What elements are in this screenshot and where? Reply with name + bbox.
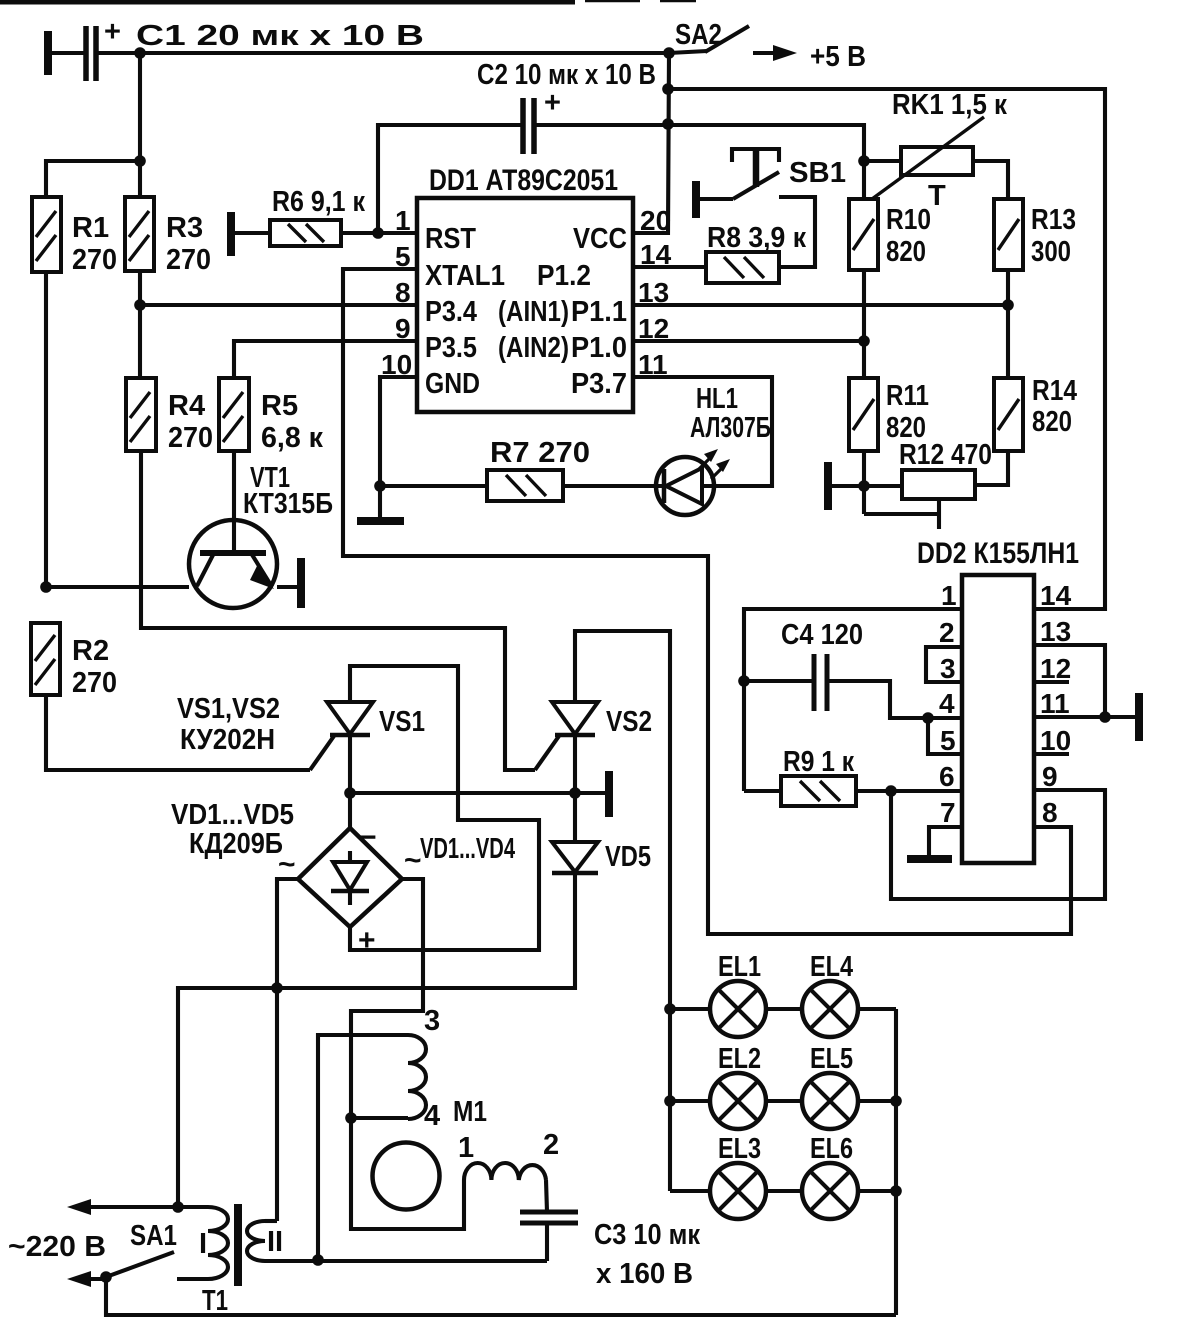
svg-text:P1.0: P1.0 xyxy=(571,332,627,364)
resistor R5 xyxy=(219,378,249,451)
svg-text:R1: R1 xyxy=(72,212,109,244)
lamp EL2 xyxy=(710,1073,766,1129)
node C4 left xyxy=(738,675,750,687)
svg-text:VD1...VD4: VD1...VD4 xyxy=(420,833,515,865)
node P3.4 xyxy=(134,299,146,311)
svg-text:GND: GND xyxy=(425,368,480,400)
svg-text:EL2: EL2 xyxy=(718,1043,761,1075)
svg-text:VS1: VS1 xyxy=(379,706,425,738)
wire VCC column xyxy=(633,53,669,233)
svg-text:270: 270 xyxy=(72,667,117,699)
arrow mains top xyxy=(67,1199,91,1215)
wire R10 bottom xyxy=(862,270,866,378)
capacitor C2 xyxy=(523,98,534,154)
node VS2 cathode xyxy=(569,787,581,799)
svg-text:RST: RST xyxy=(425,223,476,255)
ground (DD2 pin7) xyxy=(907,855,952,863)
svg-text:VCC: VCC xyxy=(573,223,627,255)
wire R6 to RST xyxy=(341,231,417,235)
svg-text:+5 В: +5 В xyxy=(810,41,866,73)
wire P3.4 to DD1 pin8 xyxy=(140,303,417,307)
svg-text:~220 В: ~220 В xyxy=(8,1231,106,1263)
wire pin1 column xyxy=(744,609,962,791)
wire VS2 anode to lamp rail xyxy=(575,631,670,1191)
svg-text:VD5: VD5 xyxy=(605,841,651,873)
node right rail row3 xyxy=(890,1185,902,1197)
wire R4 bottom to VS2 gate xyxy=(141,451,535,770)
wire pin11 to ground xyxy=(1034,715,1135,719)
svg-text:R10: R10 xyxy=(886,204,931,236)
svg-text:EL4: EL4 xyxy=(810,951,853,983)
svg-text:II: II xyxy=(267,1226,283,1258)
bridge VD1...VD4 xyxy=(298,828,402,927)
svg-text:P1.1: P1.1 xyxy=(571,296,627,328)
wire C3 bottom xyxy=(545,1223,549,1261)
svg-text:11: 11 xyxy=(1040,688,1070,719)
svg-text:R6 9,1 к: R6 9,1 к xyxy=(272,186,365,218)
svg-text:7: 7 xyxy=(940,797,956,828)
wire winding2 to C3 xyxy=(546,1180,547,1212)
wire R14 bottom to R12 xyxy=(975,451,1008,485)
svg-text:5: 5 xyxy=(940,725,956,756)
wire +5V rail to DD2 pin14 xyxy=(668,89,1105,609)
resistor R4 xyxy=(126,378,156,451)
capacitor C1 xyxy=(86,26,96,81)
node ac/VD5 rail xyxy=(271,982,283,994)
wire pin5 loop xyxy=(928,718,962,754)
svg-text:2: 2 xyxy=(543,1129,559,1161)
capacitor C4 xyxy=(814,654,827,711)
IC DD2 K155LN1 xyxy=(962,575,1034,863)
T1 core xyxy=(234,1204,242,1286)
node R11/R12/ground xyxy=(858,480,870,492)
svg-text:6,8 к: 6,8 к xyxy=(261,422,323,454)
svg-text:I: I xyxy=(199,1228,207,1260)
node right rail row2 xyxy=(890,1095,902,1107)
wire R2 bottom to VS1 gate xyxy=(46,695,310,770)
wire primary top xyxy=(74,1205,208,1209)
svg-text:(AIN1): (AIN1) xyxy=(498,296,569,328)
wire R9 to pin6 xyxy=(856,789,962,793)
wire bridge right ac to motor xyxy=(351,879,464,1229)
IC DD1 AT89C2051 xyxy=(417,198,633,412)
svg-text:9: 9 xyxy=(1042,761,1058,792)
svg-text:−: − xyxy=(359,821,377,854)
wire right lamp rail xyxy=(894,1009,898,1315)
resistor R2 xyxy=(31,623,60,695)
svg-text:8: 8 xyxy=(1042,797,1058,828)
switch SA2 xyxy=(663,47,675,59)
svg-text:2: 2 xyxy=(939,617,955,648)
pin 10 stub xyxy=(1034,752,1069,756)
wire C4 left xyxy=(744,679,814,683)
wire C1 to SA2 xyxy=(96,51,669,55)
svg-text:R12 470: R12 470 xyxy=(899,439,992,471)
wire to R1 xyxy=(46,161,140,197)
svg-text:HL1: HL1 xyxy=(696,383,738,415)
switch SA1 xyxy=(100,1271,112,1283)
svg-text:R4: R4 xyxy=(168,390,205,422)
arrow mains bottom xyxy=(67,1271,91,1287)
svg-text:12: 12 xyxy=(1040,653,1071,684)
svg-text:R7 270: R7 270 xyxy=(490,437,590,469)
svg-text:EL3: EL3 xyxy=(718,1133,761,1165)
svg-text:8: 8 xyxy=(395,277,411,308)
svg-text:R9 1 к: R9 1 к xyxy=(783,746,854,778)
wire RK1 to R13 xyxy=(973,161,1008,199)
lamp EL3 xyxy=(710,1163,766,1219)
wire R1 bottom to VT1 collector row xyxy=(44,272,48,587)
node left rail row1 xyxy=(664,1003,676,1015)
svg-text:P3.7: P3.7 xyxy=(571,368,627,400)
wire R11 bottom xyxy=(862,451,866,514)
node winding3/secondary xyxy=(312,1254,324,1266)
wire SA1 to bottom rail xyxy=(106,1277,896,1315)
wire lamp row2 xyxy=(670,1099,896,1103)
wire XTAL1 to DD2 pin8 xyxy=(343,269,1071,934)
svg-text:13: 13 xyxy=(1040,616,1071,647)
svg-text:14: 14 xyxy=(1040,580,1072,611)
wire HL1 to P3.7 xyxy=(633,377,772,486)
svg-text:DD2 К155ЛН1: DD2 К155ЛН1 xyxy=(917,537,1079,570)
resistor R8 xyxy=(706,252,779,283)
svg-text:SA2: SA2 xyxy=(675,19,722,51)
svg-text:~: ~ xyxy=(278,848,296,881)
wire node to RK1 xyxy=(864,159,901,163)
transformer T1 primary I xyxy=(208,1207,228,1279)
wire C2 left plate to RST xyxy=(378,125,523,233)
wire VS1 anode to bridge plus xyxy=(350,666,539,950)
svg-text:R11: R11 xyxy=(886,380,929,412)
svg-text:270: 270 xyxy=(168,422,213,454)
svg-text:270: 270 xyxy=(72,244,117,276)
svg-text:R14: R14 xyxy=(1032,375,1077,407)
ground (R11) xyxy=(824,462,832,510)
lamp EL1 xyxy=(710,981,766,1037)
svg-text:VS2: VS2 xyxy=(606,706,652,738)
svg-text:С3 10 мк: С3 10 мк xyxy=(594,1219,700,1251)
wire C2 right plate xyxy=(534,123,668,127)
resistor R6 xyxy=(270,220,341,246)
wire SB1 to R8 xyxy=(779,197,815,267)
arrow +5V xyxy=(753,51,783,55)
node left rail row2 xyxy=(664,1095,676,1107)
wire C4 right to pin4 xyxy=(827,681,962,718)
node pin4/5 xyxy=(922,712,934,724)
node collector/R2 xyxy=(40,581,52,593)
resistor R1 xyxy=(32,197,61,272)
svg-text:300: 300 xyxy=(1031,236,1071,268)
svg-text:P3.5: P3.5 xyxy=(425,332,477,364)
node R1/R3 split xyxy=(134,155,146,167)
svg-text:VD1...VD5: VD1...VD5 xyxy=(171,799,294,831)
svg-text:EL1: EL1 xyxy=(718,951,761,983)
svg-text:С4 120: С4 120 xyxy=(781,619,863,651)
wire VT1 emitter to ground xyxy=(277,585,297,589)
svg-text:х 160 В: х 160 В xyxy=(596,1258,693,1290)
svg-text:+: + xyxy=(544,87,561,119)
wire GND to R7 xyxy=(380,484,487,488)
winding 1-2 xyxy=(464,1163,546,1180)
svg-text:С2 10 мк х 10 В: С2 10 мк х 10 В xyxy=(477,59,656,91)
svg-text:SA1: SA1 xyxy=(130,1220,177,1252)
svg-text:3: 3 xyxy=(424,1005,440,1037)
ground (VT1 emitter) xyxy=(297,558,305,608)
svg-text:270: 270 xyxy=(166,244,211,276)
wire P1.0 xyxy=(633,339,864,343)
svg-text:10: 10 xyxy=(1040,725,1071,756)
svg-text:XTAL1: XTAL1 xyxy=(425,260,505,292)
wire lamp row1 xyxy=(670,1007,896,1011)
resistor R3 xyxy=(125,197,154,271)
wire bridge left ac xyxy=(277,879,298,1221)
ground (DD1 GND) xyxy=(378,486,382,518)
svg-text:R3: R3 xyxy=(166,212,203,244)
wire winding3 top xyxy=(318,1035,408,1260)
ground (R6 left) xyxy=(227,212,235,256)
resistor R10 xyxy=(849,199,878,270)
svg-text:(AIN2): (AIN2) xyxy=(498,332,569,364)
node top rail to DD2 xyxy=(662,83,674,95)
transistor VT1 xyxy=(189,520,277,608)
node GND/R7 xyxy=(374,480,386,492)
wire VS2 to VD5 xyxy=(573,793,577,842)
wire R5 to VT1 base xyxy=(232,451,236,553)
wire VD5 cathode down xyxy=(178,873,575,1207)
wire minus rail xyxy=(350,791,605,795)
wire secondary top xyxy=(265,1219,277,1223)
svg-text:VS1,VS2: VS1,VS2 xyxy=(177,693,280,725)
lamp EL5 xyxy=(802,1073,858,1129)
R12 wiper tap xyxy=(864,499,939,529)
svg-text:P3.4: P3.4 xyxy=(425,296,477,328)
svg-text:RK1 1,5 к: RK1 1,5 к xyxy=(892,89,1007,121)
svg-text:P1.2: P1.2 xyxy=(537,260,591,292)
svg-text:EL6: EL6 xyxy=(810,1133,853,1165)
svg-text:820: 820 xyxy=(886,236,926,268)
wire down from C1 node xyxy=(138,53,142,197)
wire R3 bottom xyxy=(138,271,142,378)
svg-text:+: + xyxy=(358,924,376,957)
ground (DD2 pin11) xyxy=(1135,693,1143,741)
svg-text:КД209Б: КД209Б xyxy=(189,828,283,860)
node pin11 xyxy=(1099,711,1111,723)
capacitor C3 xyxy=(520,1212,578,1223)
wire column to R9 xyxy=(744,789,781,793)
wire R13 bottom xyxy=(1006,270,1010,378)
thyristor VS1 xyxy=(327,702,373,734)
winding 3-4 xyxy=(408,1035,426,1119)
svg-text:9: 9 xyxy=(395,313,411,344)
svg-text:М1: М1 xyxy=(453,1096,487,1128)
wire primary bottom to SA1 contact xyxy=(177,1277,208,1281)
transformer T1 secondary II xyxy=(247,1221,265,1261)
diode VD5 xyxy=(552,842,598,872)
wire mains bottom xyxy=(74,1277,106,1281)
svg-text:R8 3,9 к: R8 3,9 к xyxy=(707,222,806,254)
resistor R7 xyxy=(487,470,563,501)
lamp EL6 xyxy=(802,1163,858,1219)
LED HL1 xyxy=(656,457,714,515)
wire lamp row3 xyxy=(670,1189,896,1193)
wire secondary bottom rail xyxy=(265,1259,547,1263)
wire R8 to P1.2 xyxy=(633,265,706,269)
svg-text:R13: R13 xyxy=(1031,204,1076,236)
ground (C1 left) xyxy=(44,31,52,75)
svg-text:АЛ307Б: АЛ307Б xyxy=(690,412,771,444)
lamp EL4 xyxy=(802,981,858,1037)
wire pins 2-3 loop xyxy=(926,647,962,682)
wire pin6 to pin9 loop xyxy=(891,790,1105,899)
trimmer R12 xyxy=(902,470,975,499)
node winding 3-4 xyxy=(345,1112,357,1124)
svg-text:6: 6 xyxy=(939,761,955,792)
svg-text:1: 1 xyxy=(395,205,411,236)
svg-text:КУ202Н: КУ202Н xyxy=(180,724,275,756)
node P1.1/R13/R14 xyxy=(1002,299,1014,311)
svg-text:4: 4 xyxy=(939,688,955,719)
svg-text:820: 820 xyxy=(1032,406,1072,438)
wire VT1 collector row xyxy=(46,585,189,589)
bridge minus lead xyxy=(348,793,352,828)
wire P1.1 xyxy=(633,303,1008,307)
wire GND pin10 xyxy=(380,377,417,486)
node RK1/R10 xyxy=(858,155,870,167)
resistor R9 xyxy=(781,776,856,806)
svg-text:1: 1 xyxy=(941,580,957,611)
svg-text:DD1 АТ89С2051: DD1 АТ89С2051 xyxy=(429,164,618,197)
gate VS1 xyxy=(310,736,334,770)
svg-text:4: 4 xyxy=(424,1100,440,1132)
svg-text:С1 20 мк х 10 В: С1 20 мк х 10 В xyxy=(136,20,424,52)
svg-text:+: + xyxy=(104,16,121,48)
svg-text:3: 3 xyxy=(940,653,956,684)
wire pin7 to ground xyxy=(929,827,962,856)
node RST xyxy=(372,227,384,239)
wire P3.5 to R5 xyxy=(234,341,417,378)
resistor R14 xyxy=(994,378,1023,451)
motor M1 xyxy=(373,1143,440,1210)
pushbutton SB1 xyxy=(692,181,700,218)
svg-text:SB1: SB1 xyxy=(789,157,846,189)
thyristor VS2 xyxy=(552,702,598,734)
wire pin13 to pin11 xyxy=(1034,645,1105,717)
node junction C1 xyxy=(134,47,146,59)
svg-text:R5: R5 xyxy=(261,390,298,422)
wire VS1 cathode xyxy=(348,735,352,793)
wire VS2 cathode xyxy=(573,735,577,793)
pin 12 stub xyxy=(1034,680,1069,684)
node P1.0/R10/R11 xyxy=(858,335,870,347)
resistor R11 xyxy=(849,378,878,451)
svg-text:EL5: EL5 xyxy=(810,1043,853,1075)
svg-text:R2: R2 xyxy=(72,635,109,667)
wire C2 to RK1/R10 xyxy=(668,125,864,199)
node pin6/pin9 loop xyxy=(885,785,897,797)
svg-text:Т1: Т1 xyxy=(202,1285,228,1317)
node VS1/bridge minus xyxy=(344,787,356,799)
svg-text:КТ315Б: КТ315Б xyxy=(243,488,333,520)
resistor R13 xyxy=(994,199,1023,270)
node primary/mains xyxy=(172,1201,184,1213)
gate VS2 xyxy=(535,736,559,770)
wire winding4 bottom xyxy=(351,1116,408,1120)
wire node to R12 xyxy=(864,484,902,488)
node C2 right xyxy=(662,118,674,130)
thermistor RK1 xyxy=(901,147,973,175)
wire R7 to HL1 xyxy=(563,484,656,488)
svg-text:20: 20 xyxy=(640,205,671,236)
scan border artifact xyxy=(0,0,575,5)
ground (cathode rail) xyxy=(605,771,613,817)
svg-text:~: ~ xyxy=(404,844,422,877)
svg-text:1: 1 xyxy=(458,1132,474,1164)
